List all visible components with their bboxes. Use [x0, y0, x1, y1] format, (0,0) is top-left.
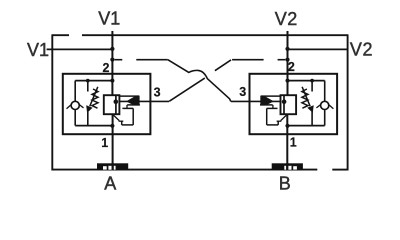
enclosure right edge [347, 34, 349, 170]
svg-text:A: A [104, 173, 116, 193]
svg-text:3: 3 [239, 85, 246, 99]
counterbalance valve U1 (left) [63, 31, 169, 170]
enclosure bottom edge right segment [332, 169, 347, 171]
svg-text:V1: V1 [98, 9, 120, 29]
svg-text:V2: V2 [275, 9, 298, 29]
enclosure top edge right segment [82, 34, 348, 36]
svg-text:V1: V1 [27, 40, 49, 60]
counterbalance valve U2 (right, mirrored) [231, 31, 337, 170]
svg-text:2: 2 [103, 61, 110, 75]
wire V2 stub horizontal [287, 48, 348, 50]
enclosure left edge [51, 34, 53, 170]
enclosure bottom edge left segment [52, 169, 317, 171]
wire pilot diagonal V2-to-left lower part [169, 78, 205, 101]
enclosure top edge left segment [52, 34, 69, 36]
wire V1 stub horizontal [47, 48, 113, 50]
svg-text:1: 1 [290, 135, 297, 149]
wire pilot diagonal V1-to-right with hop [168, 60, 231, 102]
svg-text:B: B [279, 173, 291, 193]
svg-text:V2: V2 [350, 40, 373, 60]
svg-text:1: 1 [101, 136, 108, 150]
svg-text:3: 3 [154, 85, 161, 99]
svg-text:2: 2 [288, 60, 295, 74]
wire pilot diagonal V2-to-left upper part [215, 60, 231, 71]
